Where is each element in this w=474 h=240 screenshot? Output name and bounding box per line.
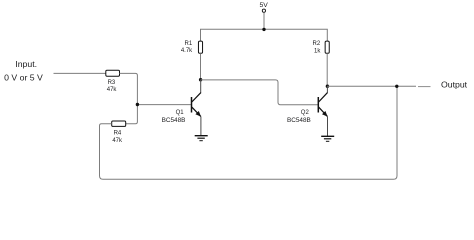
wire R1 to Q1 collector	[200, 53, 202, 79]
svg-text:1k: 1k	[314, 48, 321, 54]
wire collector stub Q1	[200, 80, 202, 93]
wire output	[327, 85, 416, 87]
transistor Q1	[192, 92, 202, 116]
junction dot 5V rail	[262, 28, 265, 31]
node D junction dot (feedback tap)	[395, 85, 398, 88]
wire node A to Q1 base	[137, 104, 191, 106]
wire R2 to Q2 collector	[326, 53, 328, 86]
wire Q1 emitter to ground	[200, 117, 202, 136]
node C junction dot (Q2 collector / output)	[326, 85, 329, 88]
ground Q1	[195, 136, 208, 141]
wire 5V terminal to rail	[263, 13, 265, 30]
wire Q2 emitter to ground	[327, 117, 329, 137]
svg-text:47k: 47k	[112, 138, 123, 144]
power terminal 5V	[262, 9, 265, 12]
svg-text:Input.: Input.	[15, 59, 37, 69]
ground Q2	[321, 136, 334, 141]
resistor R1	[198, 41, 202, 53]
wire node A to R4	[126, 105, 138, 124]
resistor R2	[325, 41, 329, 53]
wire collector stub Q2	[326, 86, 328, 92]
transistor Q2	[318, 92, 327, 116]
wire R4 to bottom rail	[100, 86, 398, 179]
svg-text:Q2: Q2	[301, 110, 310, 116]
node A junction dot	[136, 103, 139, 106]
wire output stub	[418, 86, 431, 88]
svg-text:0 V or 5 V: 0 V or 5 V	[4, 73, 43, 83]
svg-text:47k: 47k	[107, 87, 118, 93]
svg-text:BC548B: BC548B	[162, 117, 186, 124]
svg-text:Q1: Q1	[176, 110, 185, 116]
svg-text:Output: Output	[441, 79, 468, 89]
svg-text:R1: R1	[185, 41, 193, 47]
resistor R4	[112, 121, 126, 126]
svg-text:R3: R3	[108, 80, 116, 86]
svg-text:R4: R4	[114, 130, 122, 136]
svg-text:5V: 5V	[260, 2, 269, 9]
node B junction dot (Q1 collector)	[199, 78, 202, 81]
svg-text:R2: R2	[313, 41, 321, 47]
wire R3 to node A	[120, 73, 138, 104]
svg-text:4.7k: 4.7k	[181, 48, 193, 54]
wire coupling node B to Q2 base	[201, 80, 318, 105]
wire 5V rail	[201, 29, 328, 41]
resistor R3	[106, 70, 120, 76]
wire input	[54, 72, 106, 74]
svg-text:BC548B: BC548B	[287, 117, 311, 124]
